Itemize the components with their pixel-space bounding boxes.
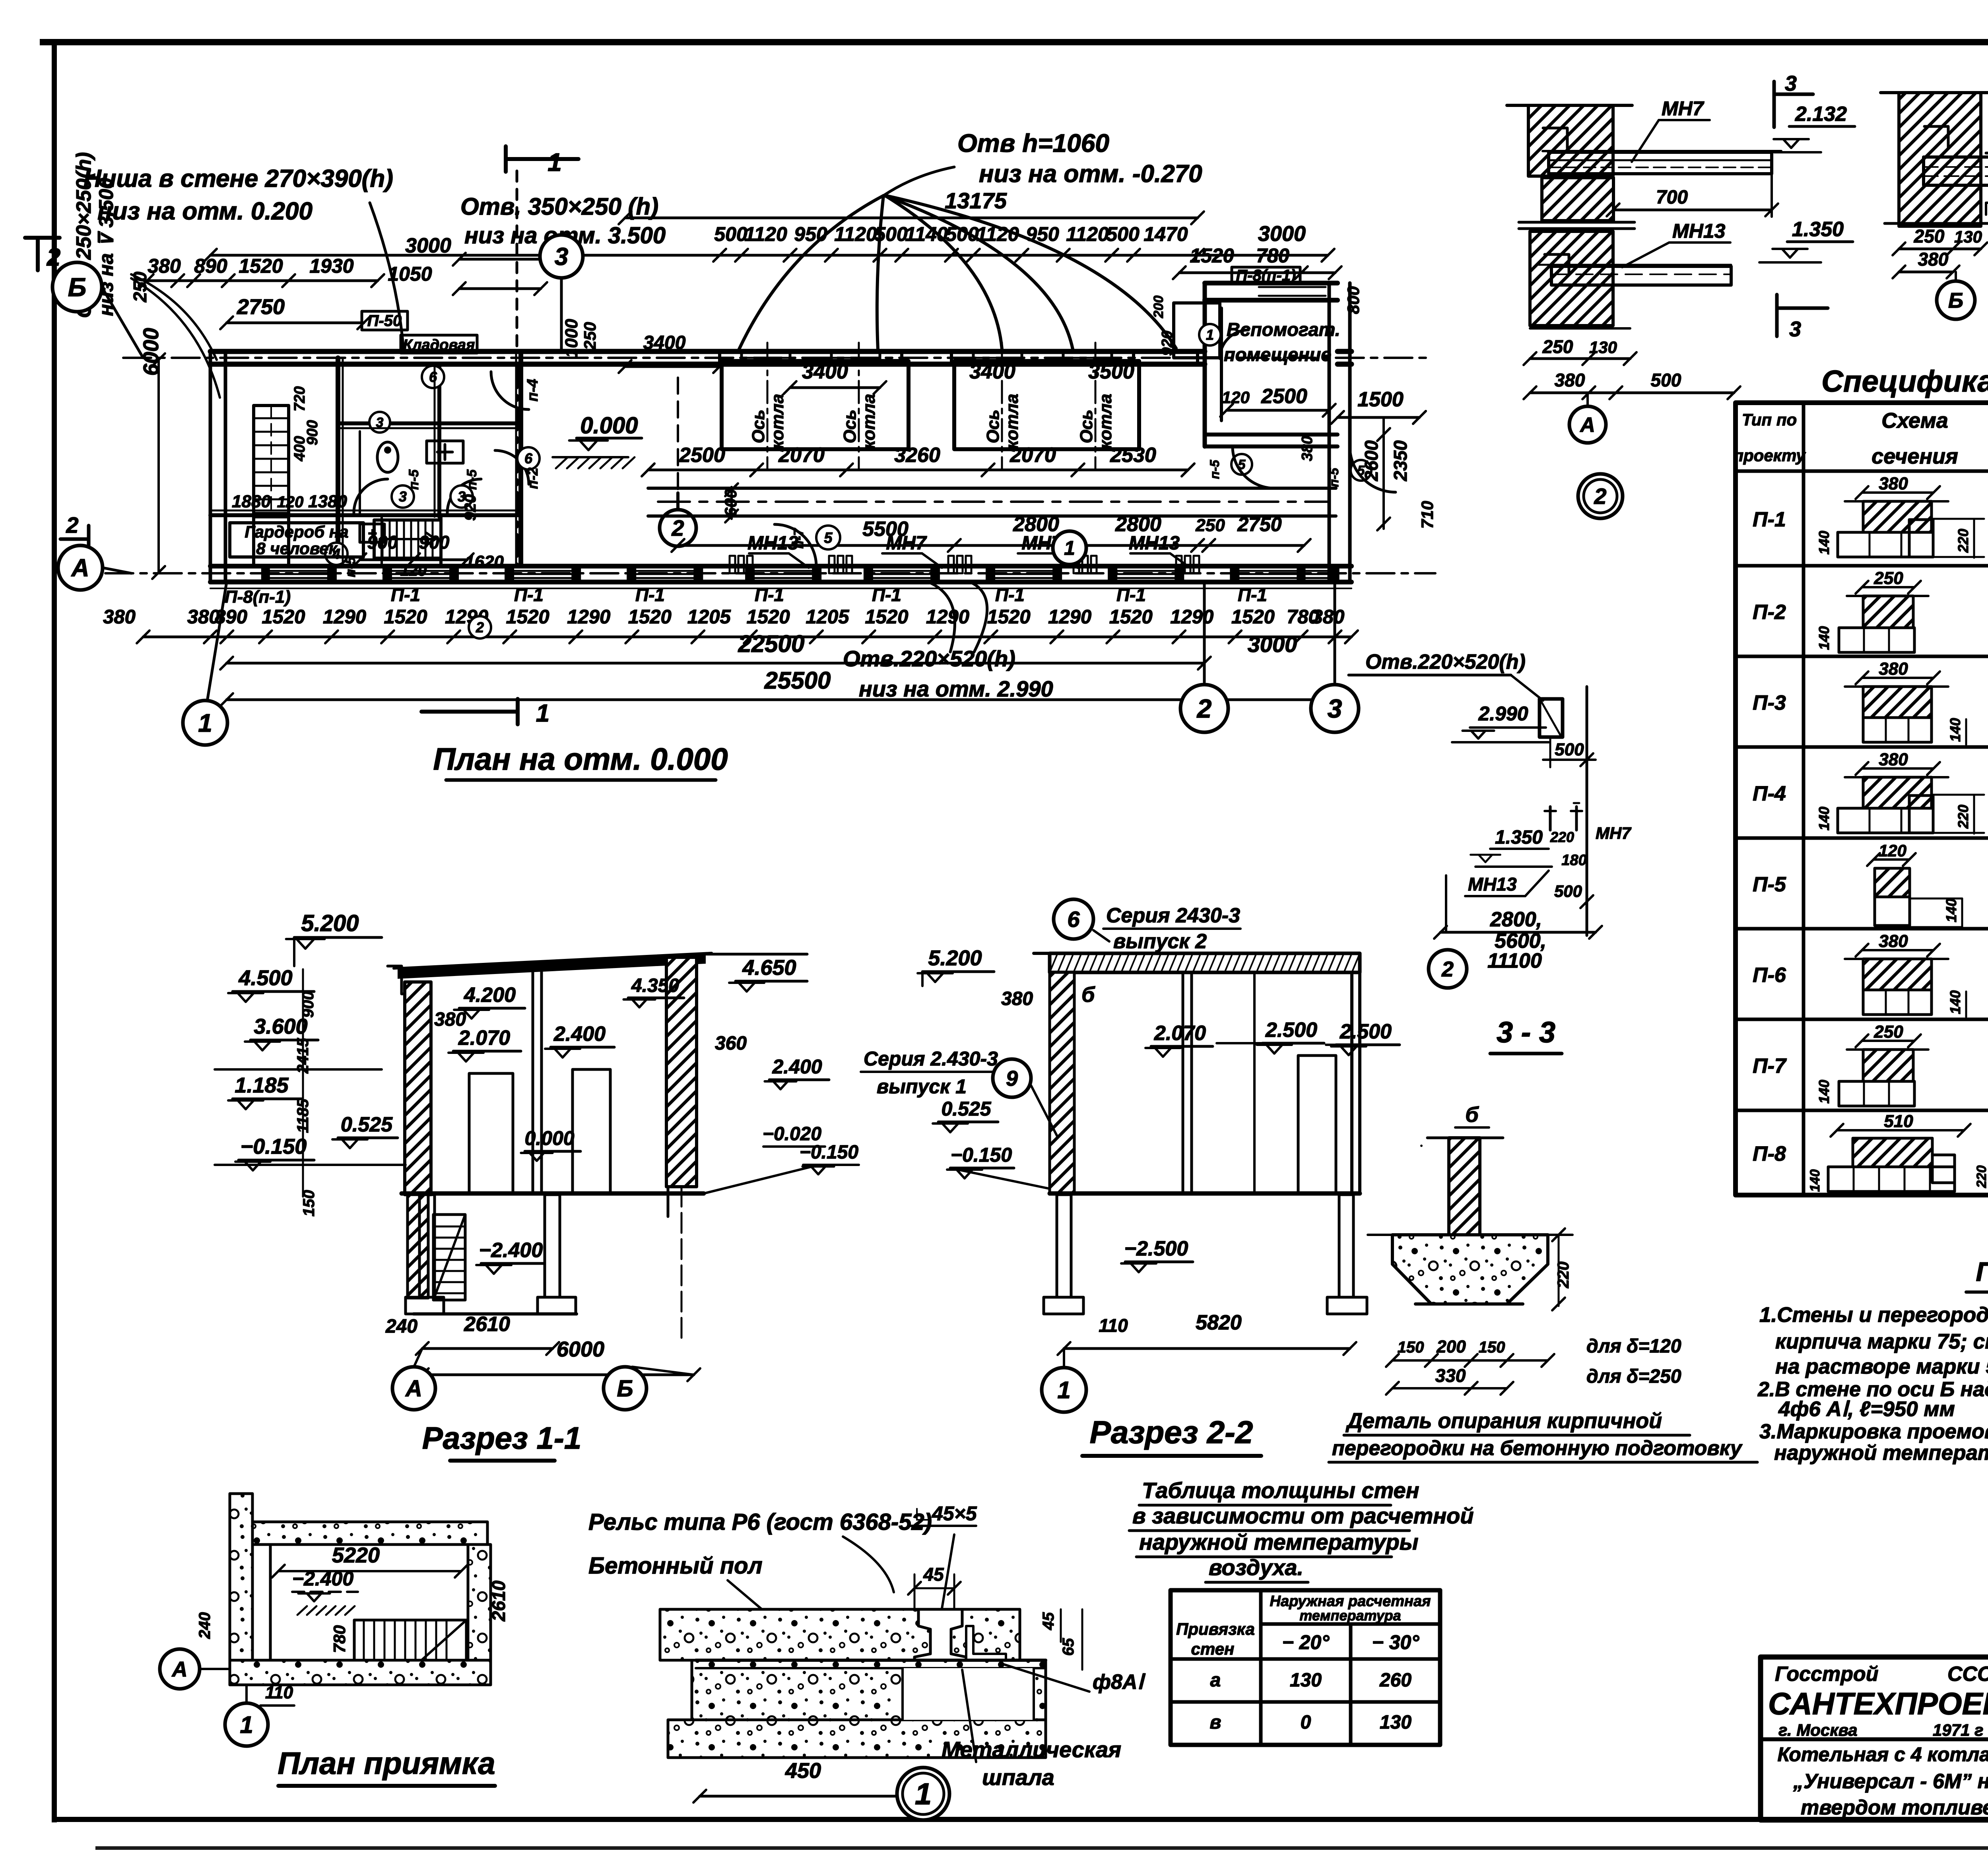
svg-text:920: 920 xyxy=(462,494,479,521)
section mark 1 bottom xyxy=(421,710,493,714)
door arc at window w5 xyxy=(775,524,816,566)
leader from otv250 note xyxy=(131,274,217,360)
bottom wall base lines xyxy=(210,564,1351,569)
svg-text:П-5: П-5 xyxy=(1753,873,1786,896)
svg-text:3400: 3400 xyxy=(643,332,686,353)
svg-text:−2.400: −2.400 xyxy=(292,1568,354,1590)
svg-text:3400: 3400 xyxy=(802,360,848,383)
razrez 1-1 basement stair xyxy=(433,1215,465,1300)
svg-text:п-4: п-4 xyxy=(524,379,541,402)
razrez 1-1 floor line xyxy=(402,1191,704,1196)
svg-text:б: б xyxy=(1465,1103,1479,1127)
pier 1290 bottom wall xyxy=(334,566,337,582)
svg-text:2: 2 xyxy=(1594,484,1606,509)
svg-text:500: 500 xyxy=(714,223,747,245)
detail B wall hatched xyxy=(1899,93,1981,226)
boiler rectangle A xyxy=(722,361,909,449)
svg-text:Госстрой: Госстрой xyxy=(1775,1663,1878,1686)
detail A corbel angle upper xyxy=(1543,128,1567,148)
priyamka axis circle A xyxy=(160,1649,200,1689)
svg-text:380: 380 xyxy=(1879,474,1908,493)
svg-text:МН13: МН13 xyxy=(1672,220,1726,242)
door opening 890 xyxy=(227,580,266,582)
annex west wall xyxy=(1203,283,1207,446)
svg-text:1120: 1120 xyxy=(976,223,1019,245)
svg-text:−0.150: −0.150 xyxy=(241,1135,307,1158)
svg-text:25500: 25500 xyxy=(764,667,831,694)
sink fixture xyxy=(427,441,463,463)
svg-text:1290: 1290 xyxy=(567,606,610,628)
svg-text:„Универсал - 6М” на: „Универсал - 6М” на xyxy=(1793,1770,1988,1793)
razrez 2-2 axis circle 1 xyxy=(1063,1349,1065,1367)
razrez 1-1 axis circle B xyxy=(632,1367,694,1375)
concrete floor deep band xyxy=(668,1720,1046,1758)
svg-text:1: 1 xyxy=(198,708,212,737)
axis circle B xyxy=(52,262,102,312)
door arc room2 xyxy=(447,479,481,513)
svg-text:250: 250 xyxy=(1195,516,1225,535)
svg-text:П-7: П-7 xyxy=(1753,1055,1787,1078)
razrez 2-2 circle 6 note xyxy=(1054,899,1093,939)
svg-text:13175: 13175 xyxy=(945,188,1007,213)
svg-text:1520: 1520 xyxy=(239,255,283,277)
svg-text:Ниша в стене 270×390(h): Ниша в стене 270×390(h) xyxy=(83,165,393,192)
svg-text:3400: 3400 xyxy=(969,360,1015,383)
svg-text:котла: котла xyxy=(768,394,787,449)
svg-text:шпала: шпала xyxy=(982,1765,1054,1790)
svg-text:Ось: Ось xyxy=(983,409,1003,443)
svg-text:П-1: П-1 xyxy=(755,584,784,605)
circled 4 xyxy=(325,543,348,565)
door arc room1 xyxy=(354,479,388,513)
svg-text:п-5: п-5 xyxy=(343,557,358,577)
axis circle A xyxy=(58,545,103,590)
razrez 2-2 right wall xyxy=(1350,972,1353,1193)
svg-text:МН13: МН13 xyxy=(1468,874,1517,895)
razrez 1-1 partition xyxy=(532,972,534,1193)
svg-text:5.200: 5.200 xyxy=(301,910,359,936)
priyamka top wall concrete xyxy=(252,1522,487,1545)
svg-text:А: А xyxy=(171,1657,188,1681)
svg-text:5820: 5820 xyxy=(1196,1311,1242,1334)
white gap under rail xyxy=(903,1668,1034,1720)
leader curves from otv center xyxy=(926,581,955,652)
svg-text:Рельс типа Р6 (гост 6368-52): Рельс типа Р6 (гост 6368-52) xyxy=(588,1509,932,1535)
svg-text:п-7: п-7 xyxy=(791,528,806,549)
partition wall vertical x850 xyxy=(336,358,340,565)
svg-text:1: 1 xyxy=(1206,327,1214,343)
svg-text:1520: 1520 xyxy=(747,606,790,628)
svg-text:П-3: П-3 xyxy=(1753,691,1786,714)
svg-text:Спецификация перемычек на прое: Спецификация перемычек на проем xyxy=(1821,365,1988,398)
svg-text:950: 950 xyxy=(794,223,827,245)
axis circle A detail xyxy=(1569,406,1606,443)
razrez 1-1 roof slope xyxy=(398,954,706,979)
svg-text:130: 130 xyxy=(1290,1670,1322,1691)
circled 1 aux room xyxy=(1199,324,1221,345)
svg-text:0: 0 xyxy=(1301,1712,1311,1733)
schema brick row xyxy=(1828,1167,1955,1191)
svg-text:г. Москва: г. Москва xyxy=(1778,1721,1858,1739)
svg-text:4.500: 4.500 xyxy=(238,966,292,990)
svg-text:б: б xyxy=(1081,983,1095,1007)
svg-text:250: 250 xyxy=(1873,569,1903,588)
section mark 3 lower xyxy=(1775,295,1779,336)
boiler rectangle B xyxy=(954,361,1139,449)
label box P-50 xyxy=(362,311,408,330)
svg-text:780: 780 xyxy=(330,1625,349,1653)
svg-text:1520: 1520 xyxy=(628,606,672,628)
razrez 1-1 footing right xyxy=(538,1297,576,1314)
top wall along axis B xyxy=(210,349,1205,354)
svg-text:4ф6 АⅠ, ℓ=950 мм: 4ф6 АⅠ, ℓ=950 мм xyxy=(1778,1397,1955,1421)
svg-text:МН7: МН7 xyxy=(886,533,927,554)
svg-text:Котельная с 4 котлами: Котельная с 4 котлами xyxy=(1777,1743,1988,1766)
rail cross-section xyxy=(914,1609,966,1660)
svg-text:3: 3 xyxy=(555,243,568,271)
svg-text:2.990: 2.990 xyxy=(1478,702,1528,725)
axis A dash-dot line xyxy=(105,572,1435,574)
svg-text:сечения: сечения xyxy=(1872,444,1958,468)
svg-text:220: 220 xyxy=(1955,805,1971,829)
circled 3 wc1 xyxy=(392,485,414,508)
svg-text:Вспомогат.: Вспомогат. xyxy=(1227,319,1340,340)
svg-text:МН13: МН13 xyxy=(1129,533,1180,554)
wall table grid xyxy=(1171,1590,1440,1745)
svg-text:твердом топливе: твердом топливе xyxy=(1801,1796,1988,1819)
pier 1290 bottom wall xyxy=(938,566,940,582)
razrez 2-2 left wall xyxy=(1050,972,1074,1194)
svg-text:140: 140 xyxy=(1816,531,1832,555)
window opening 1520 in bottom wall xyxy=(388,570,454,572)
svg-text:250: 250 xyxy=(580,322,599,350)
svg-text:360: 360 xyxy=(715,1033,747,1054)
dimension line top-left xyxy=(147,279,378,282)
svg-text:для δ=120: для δ=120 xyxy=(1586,1336,1681,1357)
svg-text:1520: 1520 xyxy=(506,606,549,628)
svg-text:380: 380 xyxy=(1555,370,1585,390)
svg-text:250: 250 xyxy=(1542,336,1573,357)
svg-text:380: 380 xyxy=(1299,436,1316,461)
anchor bolts 3-3 xyxy=(1549,807,1552,830)
svg-text:3: 3 xyxy=(1789,317,1801,341)
svg-text:Гардероб на: Гардероб на xyxy=(245,522,348,541)
svg-text:1520: 1520 xyxy=(1190,244,1234,267)
svg-text:П-4: П-4 xyxy=(1753,782,1786,805)
svg-text:1.Стены и перегородки выполнит: 1.Стены и перегородки выполнить из глиня… xyxy=(1759,1303,1988,1327)
annex south wall xyxy=(1205,433,1338,437)
razrez 1-1 basement floor xyxy=(414,1312,577,1316)
support detail cap lines xyxy=(1427,1137,1503,1139)
svg-text:9: 9 xyxy=(1006,1067,1018,1090)
svg-text:2350: 2350 xyxy=(1390,440,1411,481)
svg-text:250: 250 xyxy=(1873,1022,1903,1042)
svg-text:СССР: СССР xyxy=(1947,1663,1988,1686)
svg-text:3.600: 3.600 xyxy=(254,1015,307,1038)
section mark 3 top circle xyxy=(540,235,583,278)
partition wall horizontal y1065 xyxy=(338,421,521,425)
razrez 2-2 door rect xyxy=(1298,1056,1336,1193)
svg-text:110: 110 xyxy=(1099,1315,1128,1336)
svg-text:Ось: Ось xyxy=(840,409,860,443)
leader rels xyxy=(843,1537,894,1592)
svg-text:выпуск 1: выпуск 1 xyxy=(877,1075,967,1098)
svg-text:1620: 1620 xyxy=(465,552,504,572)
svg-text:1520: 1520 xyxy=(1231,606,1275,628)
axis circle 1 xyxy=(183,700,227,745)
svg-text:Серия 2.430-3: Серия 2.430-3 xyxy=(864,1048,998,1070)
axis B dash-dot line xyxy=(123,357,1427,359)
detail B dims 250 130 xyxy=(1899,248,1981,250)
section mark 2 mid xyxy=(660,510,696,546)
detail A top slab line xyxy=(1507,104,1632,107)
svg-text:200: 200 xyxy=(1151,295,1166,318)
svg-text:Разрез 2-2: Разрез 2-2 xyxy=(1090,1415,1253,1450)
svg-text:120: 120 xyxy=(400,562,427,579)
svg-text:А: А xyxy=(71,555,89,582)
svg-text:250: 250 xyxy=(1914,226,1945,246)
svg-text:низ на отм. 0.200: низ на отм. 0.200 xyxy=(97,198,313,225)
svg-text:1290: 1290 xyxy=(1170,606,1213,628)
svg-text:0.525: 0.525 xyxy=(941,1098,991,1120)
svg-text:− 20°: − 20° xyxy=(1282,1631,1330,1653)
axis stem 2 xyxy=(1203,582,1206,682)
leader to opening rect xyxy=(1511,675,1543,700)
svg-text:120: 120 xyxy=(1879,841,1906,860)
svg-text:120: 120 xyxy=(277,493,304,511)
circled 6 mid xyxy=(517,447,540,470)
circled 1 mid plan xyxy=(1053,531,1086,565)
svg-text:700: 700 xyxy=(1656,187,1688,208)
circled 2 double below detail A xyxy=(1578,474,1623,518)
section mark 1 top xyxy=(506,157,579,161)
svg-text:Б: Б xyxy=(1948,289,1963,312)
svg-text:2: 2 xyxy=(47,244,60,271)
circled 3 small xyxy=(369,412,390,433)
svg-text:2750: 2750 xyxy=(1237,513,1281,536)
svg-text:Серия 2430-3: Серия 2430-3 xyxy=(1106,904,1240,927)
priyamka right wall concrete xyxy=(468,1545,491,1685)
svg-text:П-1: П-1 xyxy=(1753,508,1786,531)
circled 5 aux a xyxy=(1231,454,1252,475)
svg-text:4.650: 4.650 xyxy=(742,956,796,980)
door arc annex lobby xyxy=(1220,330,1248,359)
svg-text:1520: 1520 xyxy=(1109,606,1153,628)
svg-text:1.185: 1.185 xyxy=(235,1073,289,1097)
circled 5 aux b xyxy=(1351,460,1371,481)
leader umbrella curves to openings xyxy=(739,196,883,350)
angle L45 shape xyxy=(966,1626,1006,1660)
detail A dims 380 500 xyxy=(1530,392,1734,394)
axis circle 3 xyxy=(1311,685,1359,732)
razrez 2-2 circle 9 xyxy=(993,1059,1031,1097)
schema brick row xyxy=(1838,808,1933,833)
sheet border frame bottom xyxy=(52,1817,1988,1822)
axis circle 2 xyxy=(1180,685,1228,732)
svg-text:2.400: 2.400 xyxy=(772,1056,822,1078)
window opening 1520 in bottom wall xyxy=(869,570,935,572)
svg-text:САНТЕХПРОЕКТ: САНТЕХПРОЕКТ xyxy=(1768,1686,1988,1721)
section 2 cut dash line xyxy=(677,378,679,493)
svg-text:котла: котла xyxy=(1002,394,1022,449)
svg-text:1.350: 1.350 xyxy=(1792,218,1844,241)
window opening 780 in bottom wall xyxy=(1301,570,1335,572)
svg-text:наружной температуры: наружной температуры xyxy=(1139,1529,1419,1554)
label box Kladovaya xyxy=(401,335,477,353)
svg-text:П-8(п-1): П-8(п-1) xyxy=(225,587,291,607)
svg-text:130: 130 xyxy=(1380,1712,1411,1733)
svg-text:110: 110 xyxy=(265,1683,293,1702)
detail B corbel angle xyxy=(1924,126,1948,147)
svg-text:Б: Б xyxy=(617,1376,633,1401)
lobby box west of annex xyxy=(1174,303,1220,358)
razrez 1-1 door 1 xyxy=(469,1073,513,1193)
priyamka stair xyxy=(354,1620,466,1660)
svg-text:Схема: Схема xyxy=(1881,409,1948,433)
svg-text:1290: 1290 xyxy=(926,606,969,628)
svg-text:воздуха.: воздуха. xyxy=(1209,1555,1303,1580)
leader L45 to rail xyxy=(940,1535,954,1618)
circled 2 door bottom xyxy=(469,616,491,638)
svg-text:1290: 1290 xyxy=(323,606,366,628)
razrez 1-1 right wall xyxy=(666,957,697,1187)
dimension line 6000 vertical xyxy=(157,360,160,572)
svg-text:6: 6 xyxy=(429,369,437,385)
svg-text:проекту: проекту xyxy=(1733,446,1806,465)
svg-text:3: 3 xyxy=(1785,72,1797,95)
svg-text:140: 140 xyxy=(1807,1169,1823,1192)
svg-text:Отв.220×520(h): Отв.220×520(h) xyxy=(1365,650,1526,673)
svg-text:3.Маркировка проемов в скобках: 3.Маркировка проемов в скобках относится… xyxy=(1759,1420,1988,1443)
svg-text:Тип по: Тип по xyxy=(1742,410,1797,429)
pier 1290 bottom wall xyxy=(456,566,459,582)
svg-text:3: 3 xyxy=(399,489,407,505)
support detail partition hatched xyxy=(1449,1138,1480,1235)
right walls verticals xyxy=(1328,283,1331,582)
priyamka left wall concrete xyxy=(230,1494,252,1685)
svg-text:Отв.220×520(h): Отв.220×520(h) xyxy=(843,646,1015,671)
small toilet partitions xyxy=(438,431,441,515)
uzel circle 1 big xyxy=(897,1768,949,1820)
pier 1290 bottom wall xyxy=(579,566,581,582)
pier ticks top wall xyxy=(718,351,721,364)
svg-text:260: 260 xyxy=(1379,1670,1411,1691)
circled 5 at door w5 xyxy=(816,526,840,549)
svg-text:380: 380 xyxy=(1312,606,1345,628)
razrez 1-1 basement left wall xyxy=(408,1195,428,1298)
svg-text:помещение: помещение xyxy=(1224,344,1331,365)
svg-text:Таблица толщины стен: Таблица толщины стен xyxy=(1142,1478,1419,1503)
corridor walls extension xyxy=(252,517,255,565)
svg-text:п-5: п-5 xyxy=(406,469,421,490)
dimension line top chain xyxy=(210,254,1328,257)
window opening 1520 in bottom wall xyxy=(266,570,332,572)
svg-text:140: 140 xyxy=(1816,626,1832,650)
stair corridor left wall xyxy=(254,406,289,517)
svg-text:2070: 2070 xyxy=(1010,444,1056,467)
svg-text:1500: 1500 xyxy=(1357,388,1404,411)
svg-text:для δ=250: для δ=250 xyxy=(1586,1366,1681,1387)
svg-text:2610: 2610 xyxy=(488,1580,509,1622)
svg-text:Б: Б xyxy=(68,272,87,302)
svg-text:1: 1 xyxy=(536,700,549,727)
svg-text:180: 180 xyxy=(1561,852,1586,869)
svg-text:А: А xyxy=(405,1376,422,1401)
circled 6 top xyxy=(422,366,444,388)
svg-text:а: а xyxy=(1210,1670,1221,1691)
support detail concrete footing xyxy=(1392,1235,1548,1304)
concrete floor lower band xyxy=(692,1660,1046,1720)
svg-text:2500: 2500 xyxy=(679,444,725,467)
svg-text:2.400: 2.400 xyxy=(553,1023,606,1046)
svg-text:2.132: 2.132 xyxy=(1795,103,1847,126)
razrez 1-1 door 2 xyxy=(573,1069,610,1193)
razrez 1-1 left wall xyxy=(405,982,431,1195)
detail A lintel bar MN13 xyxy=(1551,266,1731,285)
svg-text:п-5: п-5 xyxy=(1208,460,1222,479)
boiler axis lines xyxy=(767,343,769,469)
svg-text:150: 150 xyxy=(1398,1339,1424,1356)
section 3-3 circle 2 xyxy=(1429,950,1467,988)
svg-text:1: 1 xyxy=(240,1711,253,1738)
svg-text:Бетонный пол: Бетонный пол xyxy=(588,1553,763,1579)
vent blocks on wall xyxy=(730,556,735,573)
svg-text:900: 900 xyxy=(419,532,450,553)
svg-text:380: 380 xyxy=(1918,249,1949,270)
svg-text:П-50: П-50 xyxy=(367,312,402,330)
razrez 2-2 floor line xyxy=(1050,1191,1360,1196)
axis stem 3 xyxy=(1334,582,1336,682)
svg-text:2.500: 2.500 xyxy=(1340,1020,1392,1043)
svg-text:п-5: п-5 xyxy=(464,469,480,490)
title block left divider xyxy=(1761,1737,1988,1741)
razrez 1-1 footing left xyxy=(406,1297,444,1314)
dim line 2800 5600 11100 xyxy=(1441,931,1596,934)
svg-text:1470: 1470 xyxy=(1143,223,1188,245)
priyamka inner room xyxy=(270,1545,468,1660)
svg-text:380: 380 xyxy=(1879,931,1908,951)
window opening 1520 in bottom wall xyxy=(750,570,816,572)
svg-text:на растворе марки 50: на растворе марки 50 xyxy=(1775,1355,1988,1378)
svg-text:5.200: 5.200 xyxy=(928,946,982,970)
svg-text:котла: котла xyxy=(859,394,879,449)
svg-text:1: 1 xyxy=(1064,537,1075,559)
svg-text:П-1: П-1 xyxy=(391,584,420,605)
svg-text:1520: 1520 xyxy=(865,606,908,628)
svg-text:наружной температурой воздух: наружной температурой воздуха -20°С xyxy=(1774,1441,1988,1465)
small opening rect symbol xyxy=(1540,699,1563,737)
window opening 1520 in bottom wall xyxy=(510,570,576,572)
svg-text:5220: 5220 xyxy=(332,1543,380,1567)
cabinet fixture xyxy=(360,524,384,542)
svg-text:План приямка: План приямка xyxy=(278,1746,495,1781)
svg-text:22500: 22500 xyxy=(738,631,805,657)
sheet border frame left xyxy=(52,39,57,1822)
svg-text:140: 140 xyxy=(1947,990,1963,1014)
svg-text:140: 140 xyxy=(1943,898,1959,922)
svg-text:1: 1 xyxy=(547,148,562,177)
svg-text:Ось: Ось xyxy=(749,409,768,443)
svg-text:Отв h=1060: Отв h=1060 xyxy=(957,129,1109,157)
svg-text:3: 3 xyxy=(1328,694,1342,723)
svg-text:П-1: П-1 xyxy=(514,584,544,605)
svg-text:240: 240 xyxy=(196,1612,214,1639)
svg-text:45: 45 xyxy=(923,1564,944,1585)
priyamka bottom wall concrete xyxy=(230,1660,491,1685)
vertical dim line east 2600 2350 xyxy=(1382,417,1385,529)
svg-text:1520: 1520 xyxy=(384,606,427,628)
svg-text:П-2: П-2 xyxy=(1753,601,1786,624)
